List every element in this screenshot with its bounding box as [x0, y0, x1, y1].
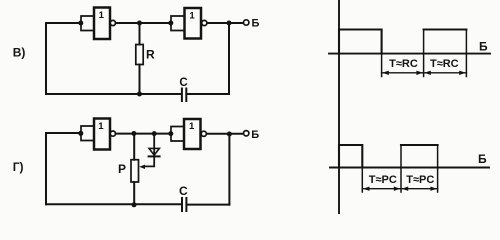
- svg-text:T≈PC: T≈PC: [369, 174, 397, 186]
- svg-text:Б: Б: [251, 129, 259, 141]
- svg-text:1: 1: [98, 121, 104, 132]
- svg-text:R: R: [146, 48, 155, 62]
- svg-text:1: 1: [189, 11, 195, 22]
- svg-text:Б: Б: [252, 18, 260, 30]
- svg-text:C: C: [179, 184, 188, 198]
- svg-text:P: P: [118, 162, 126, 176]
- svg-text:1: 1: [99, 10, 105, 21]
- svg-text:Б: Б: [478, 152, 487, 166]
- svg-text:T≈PC: T≈PC: [406, 174, 434, 186]
- svg-text:T≈RC: T≈RC: [430, 58, 459, 70]
- svg-text:1: 1: [189, 121, 195, 132]
- svg-text:C: C: [179, 77, 187, 89]
- svg-text:Б: Б: [479, 39, 488, 53]
- svg-text:Г): Г): [13, 160, 24, 174]
- svg-text:В): В): [13, 45, 26, 59]
- svg-text:T≈RC: T≈RC: [389, 58, 418, 70]
